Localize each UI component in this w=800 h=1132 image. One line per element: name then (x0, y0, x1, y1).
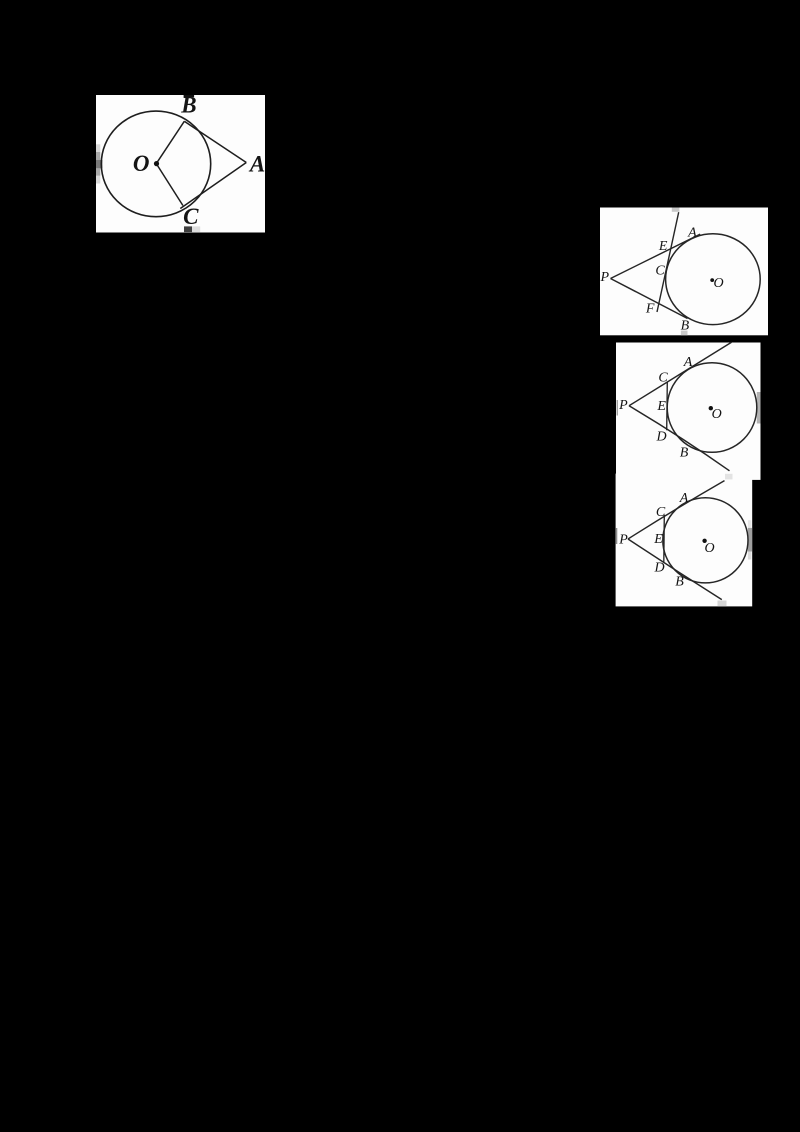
svg-text:B: B (680, 446, 689, 461)
tangent segment CD touching at E (figure 4) (663, 515, 666, 563)
svg-text:C: C (656, 505, 666, 520)
tangent line through P D B (figure 4) (628, 539, 722, 600)
svg-text:B: B (180, 93, 196, 118)
svg-text:O: O (133, 151, 150, 176)
center dot O (figure 4) (702, 539, 706, 543)
center dot O (figure 3) (709, 406, 713, 410)
svg-text:A: A (248, 151, 265, 176)
svg-text:E: E (656, 399, 666, 414)
svg-text:P: P (618, 398, 628, 413)
figure 1 bottom-edge light square (192, 226, 200, 232)
svg-text:A: A (687, 225, 697, 240)
figure 2 bottom-edge gray square (681, 331, 688, 336)
svg-text:D: D (653, 561, 664, 576)
circle O (figure 4) (663, 498, 748, 583)
figure 3 panel (616, 343, 761, 480)
svg-text:P: P (618, 533, 628, 548)
svg-text:E: E (653, 532, 663, 547)
svg-text:C: C (658, 371, 668, 386)
figure 4 left-edge gray tick (616, 528, 618, 544)
svg-text:A: A (683, 355, 693, 370)
svg-text:B: B (681, 319, 690, 334)
tangent line through P D B (figure 3) (629, 406, 730, 471)
figure 2 top-edge gray square (672, 208, 680, 212)
svg-text:E: E (658, 239, 668, 254)
tangent segment CD touching at E (figure 3) (666, 382, 669, 431)
center dot O (figure 1) (154, 161, 159, 166)
svg-text:C: C (183, 204, 199, 229)
svg-text:P: P (600, 270, 610, 285)
figure 4 panel (616, 474, 753, 607)
figure 1 left-edge gray scan mark (96, 144, 102, 183)
svg-text:O: O (713, 276, 723, 291)
figure 4 bottom-edge light smudge (718, 601, 727, 607)
tangent line EF through C (figure 2) (657, 212, 679, 312)
figure 4 right-edge gray strips (748, 520, 752, 559)
tangent line AB (figure 1) (184, 121, 246, 162)
figure 3 right-edge gray strip (757, 392, 761, 424)
center dot O (figure 2) (710, 278, 714, 282)
svg-text:O: O (712, 407, 722, 422)
circle O (figure 1) (101, 111, 210, 217)
figure 2 panel (600, 208, 768, 336)
svg-text:C: C (655, 264, 665, 279)
circle O (figure 2) (666, 234, 761, 325)
tangent line through P C A (figure 4) (628, 481, 725, 539)
tangent line PB (figure 2) (611, 279, 688, 319)
svg-text:F: F (645, 302, 655, 317)
radius OB (figure 1) (156, 121, 184, 163)
tangent line AC (figure 1) (180, 163, 246, 209)
svg-text:A: A (679, 491, 689, 506)
figure 1 top-edge black mark above B (184, 95, 195, 97)
svg-text:O: O (704, 541, 714, 556)
svg-text:B: B (675, 575, 684, 590)
figure 1 bottom-edge dark square below C (184, 226, 192, 232)
tangent line through P C A (figure 3) (629, 342, 732, 406)
svg-text:D: D (656, 430, 667, 445)
circle O (figure 3) (667, 363, 757, 453)
radius OC (figure 1) (156, 164, 183, 206)
figure 1 panel (96, 95, 265, 233)
figure 3 left-edge gray tick (617, 400, 618, 416)
figure 4 top-edge light smudge (725, 474, 733, 480)
tangent line PA (figure 2) (611, 234, 701, 278)
